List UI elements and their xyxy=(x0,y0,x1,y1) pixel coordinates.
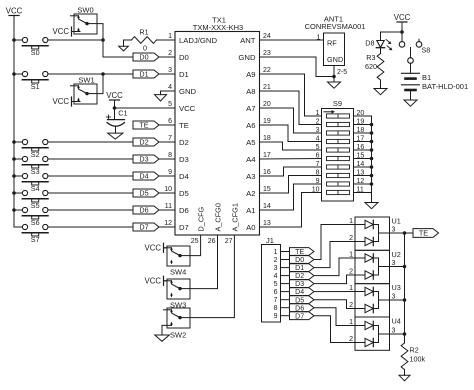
svg-text:21: 21 xyxy=(263,84,271,91)
svg-text:R1: R1 xyxy=(139,28,148,37)
svg-text:19: 19 xyxy=(263,118,271,125)
net flag D4 xyxy=(133,172,175,181)
svg-text:D7: D7 xyxy=(179,223,189,232)
wire pin22 to S9 xyxy=(260,74,322,116)
pushbutton S4 xyxy=(14,173,48,193)
svg-text:13: 13 xyxy=(263,220,271,227)
svg-text:3: 3 xyxy=(392,260,396,267)
diode array U3 xyxy=(349,283,404,317)
net flag TE output xyxy=(405,229,439,238)
svg-text:1: 1 xyxy=(168,33,172,40)
net flag D0 at J1 xyxy=(290,256,315,265)
svg-text:TE: TE xyxy=(179,121,189,130)
svg-text:D2: D2 xyxy=(179,138,189,147)
wire VCC to D8 xyxy=(381,32,403,40)
net flag D5 xyxy=(133,189,175,198)
ANT1 GND stub xyxy=(333,66,335,83)
svg-text:D6: D6 xyxy=(295,305,304,312)
junction on VCC rail xyxy=(12,208,16,212)
svg-text:D3: D3 xyxy=(295,281,304,288)
svg-text:0: 0 xyxy=(143,44,147,53)
junction on VCC rail xyxy=(12,72,16,76)
svg-text:VCC: VCC xyxy=(145,243,162,252)
svg-text:S8: S8 xyxy=(422,46,431,55)
ground at B1 xyxy=(404,100,417,106)
svg-text:C1: C1 xyxy=(118,109,127,118)
svg-text:D5: D5 xyxy=(179,189,189,198)
junction on S9 bus xyxy=(370,123,374,127)
svg-text:D3: D3 xyxy=(139,155,148,164)
svg-text:GND: GND xyxy=(327,55,343,64)
svg-text:U4: U4 xyxy=(392,317,401,326)
svg-text:9: 9 xyxy=(168,169,172,176)
TE output bus xyxy=(404,233,406,334)
svg-text:D2: D2 xyxy=(139,138,148,147)
wire SW1 to node B xyxy=(97,74,103,94)
svg-text:3: 3 xyxy=(168,67,172,74)
svg-text:9: 9 xyxy=(316,178,320,185)
IC left pin numbers 1-12 xyxy=(164,33,172,227)
IC U-TX1 TXM-XXX-KH3 box xyxy=(175,16,260,236)
junction on S9 bus xyxy=(370,174,374,178)
net flag D6 at J1 xyxy=(290,304,315,313)
svg-text:S0: S0 xyxy=(31,48,40,57)
net flag D4 at J1 xyxy=(290,288,315,297)
wire pin13 to S9 xyxy=(260,193,322,228)
svg-text:A_CFG0: A_CFG0 xyxy=(214,203,223,231)
power VCC (top right) xyxy=(394,13,411,32)
svg-text:A6: A6 xyxy=(246,121,255,130)
svg-text:4: 4 xyxy=(168,84,172,91)
junction on S9 bus xyxy=(370,157,374,161)
wire S0 to node xyxy=(48,39,103,41)
svg-text:A9: A9 xyxy=(246,70,255,79)
wire pin14 to S9 xyxy=(260,184,322,210)
pushbutton S3 xyxy=(14,156,48,176)
svg-text:25: 25 xyxy=(191,238,199,245)
wire S row to D2 flag xyxy=(48,141,133,143)
svg-text:8: 8 xyxy=(316,170,320,177)
diode array U1 xyxy=(349,217,404,251)
net flag TE xyxy=(133,121,175,130)
svg-text:3: 3 xyxy=(392,227,396,234)
diode array U4 xyxy=(349,317,404,351)
wire pin25 to SW4 xyxy=(190,235,201,256)
svg-text:B1: B1 xyxy=(422,73,431,82)
S9 right pin numbers 20-11 xyxy=(357,110,365,194)
node ANT1 GND junction xyxy=(332,75,336,79)
switch SW1 xyxy=(71,76,98,105)
wire S row to D3 flag xyxy=(48,158,133,160)
svg-text:D7: D7 xyxy=(139,223,148,232)
svg-text:D4: D4 xyxy=(179,172,190,181)
svg-text:D2: D2 xyxy=(295,273,304,280)
S9 left pin numbers 1-10 xyxy=(312,110,320,194)
resistor R2 xyxy=(401,334,425,375)
svg-text:1: 1 xyxy=(349,285,353,292)
node VCC junction xyxy=(400,30,404,34)
svg-text:23: 23 xyxy=(263,50,271,57)
svg-text:2: 2 xyxy=(349,235,353,242)
svg-text:1: 1 xyxy=(349,319,353,326)
wire S row to D7 flag xyxy=(48,226,133,228)
svg-text:R2: R2 xyxy=(410,346,419,355)
svg-text:2: 2 xyxy=(274,257,278,264)
svg-text:24: 24 xyxy=(263,33,271,40)
svg-text:D0: D0 xyxy=(179,53,189,62)
S9 right pin stubs xyxy=(354,116,372,193)
svg-text:VCC: VCC xyxy=(106,91,123,100)
svg-text:VCC: VCC xyxy=(394,13,411,22)
svg-text:VCC: VCC xyxy=(53,27,70,36)
svg-text:J1: J1 xyxy=(266,236,274,245)
svg-text:S2: S2 xyxy=(31,150,40,159)
wire pin20 to S9 xyxy=(260,108,322,133)
resistor R1 xyxy=(124,28,175,53)
switch SW2 xyxy=(164,308,191,340)
junction on VCC rail xyxy=(12,157,16,161)
svg-text:22: 22 xyxy=(263,67,271,74)
wire D6 to diode xyxy=(314,308,355,326)
power VCC rail (left) xyxy=(6,6,23,227)
svg-text:5: 5 xyxy=(316,144,320,151)
wire S row to D6 flag xyxy=(48,209,133,211)
svg-text:LADJ/GND: LADJ/GND xyxy=(179,36,217,45)
svg-text:7: 7 xyxy=(274,297,278,304)
svg-text:S6: S6 xyxy=(31,218,40,227)
junction on TE bus xyxy=(403,231,407,235)
svg-text:1: 1 xyxy=(274,249,278,256)
svg-text:7: 7 xyxy=(168,135,172,142)
ground at ANT1 xyxy=(328,82,341,88)
S9 ground bus xyxy=(371,116,373,203)
switch SW0 xyxy=(71,5,98,34)
svg-text:BAT-HLD-001: BAT-HLD-001 xyxy=(422,82,468,91)
wire D7 to diode xyxy=(314,316,355,343)
resistor R3 xyxy=(365,48,384,89)
svg-text:TE: TE xyxy=(295,249,304,256)
svg-text:CONREVSMA001: CONREVSMA001 xyxy=(305,22,366,31)
net flag D0 xyxy=(133,53,175,62)
net flag D3 xyxy=(133,155,175,164)
wire D5 to diode xyxy=(314,300,355,309)
svg-text:A7: A7 xyxy=(246,104,255,113)
svg-text:D8: D8 xyxy=(365,39,374,48)
junction on S9 bus xyxy=(370,140,374,144)
junction on VCC rail xyxy=(12,191,16,195)
svg-text:D5: D5 xyxy=(139,189,148,198)
svg-text:A1: A1 xyxy=(246,206,255,215)
net flag D2 xyxy=(133,138,175,147)
ground at R3 xyxy=(374,89,387,95)
svg-text:2: 2 xyxy=(168,50,172,57)
svg-text:12: 12 xyxy=(164,220,172,227)
svg-text:TXM-XXX-KH3: TXM-XXX-KH3 xyxy=(193,23,243,32)
junction on VCC rail xyxy=(12,38,16,42)
svg-text:S4: S4 xyxy=(31,184,40,193)
ground at R1 xyxy=(119,40,129,51)
wire node A to D0 flag xyxy=(103,40,133,57)
svg-text:VCC: VCC xyxy=(6,6,23,15)
IC bottom pin numbers 25-27 xyxy=(191,238,233,245)
power VCC at SW3 xyxy=(145,276,166,285)
svg-text:A3: A3 xyxy=(246,172,255,181)
svg-text:16: 16 xyxy=(263,169,271,176)
svg-text:ANT: ANT xyxy=(240,36,256,45)
svg-text:GND: GND xyxy=(179,87,197,96)
svg-text:SW0: SW0 xyxy=(77,5,93,14)
net flag D6 xyxy=(133,206,175,215)
svg-text:1: 1 xyxy=(349,252,353,259)
power VCC at SW4 xyxy=(145,243,166,252)
svg-text:8: 8 xyxy=(168,152,172,159)
svg-text:A_CFG1: A_CFG1 xyxy=(231,203,240,231)
svg-text:5: 5 xyxy=(274,281,278,288)
IC right pin numbers 24-13 xyxy=(263,33,271,227)
svg-text:D1: D1 xyxy=(295,265,304,272)
power VCC at pin 5 xyxy=(106,91,123,108)
svg-text:A5: A5 xyxy=(246,138,255,147)
power VCC at SW1 xyxy=(53,97,80,106)
svg-text:VCC: VCC xyxy=(145,276,162,285)
wire D2 to diode xyxy=(314,258,355,276)
IC right pin labels xyxy=(238,36,256,232)
svg-text:SW1: SW1 xyxy=(78,76,94,85)
svg-text:7: 7 xyxy=(316,161,320,168)
node VCC/C1 junction xyxy=(113,106,117,110)
wire pin24 to ANT1 RF xyxy=(260,39,324,41)
svg-text:D6: D6 xyxy=(179,206,189,215)
DIP switch S9 xyxy=(322,99,354,201)
svg-text:20: 20 xyxy=(263,101,271,108)
wire pin17 to S9 xyxy=(260,158,322,161)
svg-text:5: 5 xyxy=(168,101,172,108)
junction on TE bus xyxy=(403,298,407,302)
junction on S9 bus xyxy=(370,165,374,169)
wire pin16 to S9 xyxy=(260,167,322,176)
svg-text:S9: S9 xyxy=(333,99,342,108)
svg-text:10: 10 xyxy=(164,186,172,193)
pushbutton S0 xyxy=(14,37,48,57)
svg-text:D7: D7 xyxy=(295,313,304,320)
pushbutton S2 xyxy=(14,139,48,159)
net flag TE at J1 xyxy=(290,248,315,257)
svg-text:VCC: VCC xyxy=(179,104,196,113)
net flag D5 at J1 xyxy=(290,296,315,305)
svg-text:26: 26 xyxy=(208,238,216,245)
LED D8 xyxy=(365,39,392,51)
antenna ANT1 CONREVSMA001 xyxy=(305,15,366,77)
svg-text:U2: U2 xyxy=(392,250,401,259)
svg-text:D_CFG: D_CFG xyxy=(197,206,206,231)
ground at R2 xyxy=(399,375,410,381)
ground at SW2 xyxy=(155,325,172,341)
svg-text:U3: U3 xyxy=(392,283,401,292)
svg-text:1: 1 xyxy=(349,218,353,225)
wire pin15 to S9 xyxy=(260,176,322,194)
svg-text:17: 17 xyxy=(263,152,271,159)
svg-text:VCC: VCC xyxy=(53,97,70,106)
junction on S9 bus xyxy=(370,131,374,135)
svg-text:100k: 100k xyxy=(410,355,426,364)
svg-text:14: 14 xyxy=(263,203,271,210)
svg-text:S5: S5 xyxy=(31,201,40,210)
svg-text:1: 1 xyxy=(316,110,320,117)
svg-text:11: 11 xyxy=(165,203,172,210)
svg-text:D6: D6 xyxy=(139,206,148,215)
wire S1/D1 row xyxy=(48,73,133,75)
wire pin23 to ANT1 GND xyxy=(260,57,335,77)
wire D1 to diode xyxy=(314,242,355,268)
svg-text:4: 4 xyxy=(274,273,278,280)
net flag D1 xyxy=(133,70,175,79)
svg-text:2: 2 xyxy=(349,336,353,343)
pushbutton S7 xyxy=(14,224,48,244)
switch SW3 xyxy=(164,279,191,310)
svg-text:2-5: 2-5 xyxy=(337,69,347,76)
svg-text:S3: S3 xyxy=(31,167,40,176)
svg-text:2: 2 xyxy=(316,119,320,126)
svg-text:D3: D3 xyxy=(179,155,189,164)
junction on TE bus xyxy=(403,332,407,336)
wire pin26 to SW3 xyxy=(190,235,218,289)
junction on VCC rail xyxy=(12,174,16,178)
power VCC at SW0 xyxy=(53,27,80,36)
wire S row to D4 flag xyxy=(48,175,133,177)
node A junction xyxy=(101,38,105,42)
svg-text:SW4: SW4 xyxy=(170,268,186,277)
svg-text:3: 3 xyxy=(274,265,278,272)
svg-text:6: 6 xyxy=(168,118,172,125)
wire D4 to diode xyxy=(314,291,355,293)
svg-text:D1: D1 xyxy=(179,70,189,79)
battery B1 BAT-HLD-001 xyxy=(402,63,469,100)
wire D0 to diode xyxy=(314,225,355,260)
svg-text:D5: D5 xyxy=(295,297,304,304)
svg-text:6: 6 xyxy=(274,289,278,296)
svg-text:2: 2 xyxy=(349,302,353,309)
junction on TE bus xyxy=(403,265,407,269)
svg-text:SW2: SW2 xyxy=(170,331,186,340)
switch SW4 xyxy=(164,246,191,277)
wire D3 to diode xyxy=(314,275,355,284)
IC bottom pin labels D_CFG A_CFG0 A_CFG1 xyxy=(197,203,240,231)
diode array U2 xyxy=(349,250,404,284)
svg-text:U1: U1 xyxy=(392,217,401,226)
wire pin19 to S9 xyxy=(260,125,322,142)
pushbutton S1 xyxy=(14,71,48,91)
svg-text:620: 620 xyxy=(365,62,377,71)
junction on VCC rail xyxy=(12,140,16,144)
svg-text:D4: D4 xyxy=(295,289,304,296)
svg-text:GND: GND xyxy=(238,53,256,62)
svg-text:S7: S7 xyxy=(31,235,40,244)
junction on S9 bus xyxy=(370,182,374,186)
pushbutton S5 xyxy=(14,190,48,210)
wire pin21 to S9 xyxy=(260,91,322,125)
svg-text:6: 6 xyxy=(316,153,320,160)
svg-text:R3: R3 xyxy=(366,53,375,62)
wire S row to D5 flag xyxy=(48,192,133,194)
wire pin27 to SW2 xyxy=(190,235,234,318)
wire SW0 to node A xyxy=(97,24,103,40)
IC left pin labels xyxy=(179,36,217,232)
pushbutton S6 xyxy=(14,207,48,227)
svg-text:4: 4 xyxy=(316,136,320,143)
svg-text:27: 27 xyxy=(225,238,233,245)
svg-text:A8: A8 xyxy=(246,87,255,96)
connector J1 xyxy=(262,236,290,322)
svg-text:A4: A4 xyxy=(246,155,256,164)
net flag D3 at J1 xyxy=(290,280,315,289)
svg-text:3: 3 xyxy=(392,328,396,335)
node B junction xyxy=(101,72,105,76)
svg-text:9: 9 xyxy=(274,313,278,320)
net flag D1 at J1 xyxy=(290,264,315,273)
svg-text:D0: D0 xyxy=(139,53,148,62)
wire VCC to pin 5 xyxy=(115,107,175,109)
svg-text:3: 3 xyxy=(392,294,396,301)
capacitor C1 xyxy=(106,108,127,139)
ground at S9 xyxy=(365,203,378,209)
svg-text:15: 15 xyxy=(263,186,271,193)
svg-text:A2: A2 xyxy=(246,189,255,198)
junction on S9 bus xyxy=(370,148,374,152)
svg-text:D1: D1 xyxy=(139,70,148,79)
svg-text:3: 3 xyxy=(316,127,320,134)
svg-text:8: 8 xyxy=(274,305,278,312)
svg-text:D4: D4 xyxy=(139,172,148,181)
svg-text:D0: D0 xyxy=(295,257,304,264)
svg-text:TE: TE xyxy=(139,121,148,130)
switch S8 xyxy=(399,32,430,63)
svg-text:2: 2 xyxy=(349,269,353,276)
svg-text:A0: A0 xyxy=(246,223,255,232)
net flag D7 at J1 xyxy=(290,312,315,321)
ground at pin 4 xyxy=(155,91,175,101)
svg-text:TE: TE xyxy=(419,229,428,238)
svg-text:18: 18 xyxy=(263,135,271,142)
svg-text:RF: RF xyxy=(327,39,337,48)
wire pin18 to S9 xyxy=(260,142,322,150)
svg-text:10: 10 xyxy=(312,187,320,194)
net flag D2 at J1 xyxy=(290,272,315,281)
svg-text:S1: S1 xyxy=(31,82,40,91)
net flag D7 xyxy=(133,223,175,232)
